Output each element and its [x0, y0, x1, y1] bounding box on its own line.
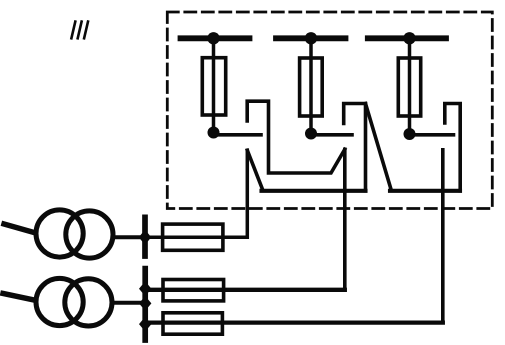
- junction diamond row 2: [139, 281, 151, 296]
- wire contact stab 2: [311, 133, 352, 137]
- wire A: feeder 1 riser and fuse row 1 through-wire: [145, 150, 247, 237]
- transformer T2: [36, 278, 112, 326]
- junction diamond T2 feed: [139, 296, 151, 311]
- busbar section 1: [181, 35, 250, 41]
- junction diamond row 3: [139, 317, 151, 332]
- contact jaw bracket 2: [344, 104, 366, 191]
- busbar section 3: [368, 35, 446, 41]
- node dot bus 2: [305, 32, 317, 44]
- T2 primary lead: [3, 294, 34, 301]
- transformer T1: [36, 210, 113, 258]
- wire B: feeder 2 riser and fuse row 2 through-wire: [145, 288, 345, 292]
- junction diamond on bar 1: [139, 230, 151, 245]
- node dot below F2: [305, 128, 317, 140]
- fuse F4 (row 1): [163, 224, 223, 250]
- wire contact stab 3: [410, 133, 454, 137]
- T1 primary lead: [4, 224, 34, 233]
- fuse F2: [300, 58, 323, 116]
- wire contact stab 1: [214, 133, 262, 137]
- fuse F5 (row 2): [163, 280, 224, 301]
- enclosure dashed box: [167, 12, 492, 209]
- switch blade 2 with link to jaw 3: [366, 104, 392, 190]
- fuse F3: [398, 58, 420, 116]
- fuse F6 (row 3): [163, 313, 222, 334]
- node dot bus 3: [403, 32, 415, 44]
- wire fuse column 3: [408, 38, 412, 134]
- wire C: feeder 3 riser and fuse row 3 through-wire: [145, 320, 443, 324]
- distribution bar 2: [142, 269, 148, 340]
- wire fuse column 2: [309, 38, 313, 134]
- switch blade 1 with link to jaw 2: [247, 150, 262, 189]
- node dot bus 1: [207, 32, 219, 44]
- wire fuse column 1: [212, 38, 216, 133]
- contact jaw bracket 3: [445, 104, 460, 191]
- node dot below F1: [208, 127, 220, 139]
- label III (circuit number): [71, 22, 88, 39]
- distribution bar 1: [142, 217, 148, 256]
- fuse F1: [202, 58, 225, 115]
- busbar section 2: [276, 35, 346, 41]
- wire T2 secondary: [114, 301, 146, 305]
- wire T1 secondary: [114, 235, 144, 239]
- node dot below F3: [404, 128, 416, 140]
- contact jaw bracket 1 with bottom bar and blade to node B: [247, 101, 345, 173]
